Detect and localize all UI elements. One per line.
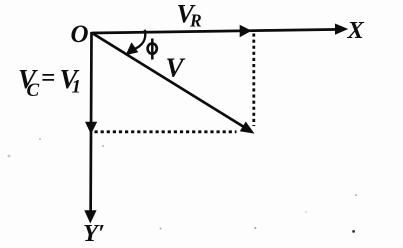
svg-text:O: O bbox=[71, 21, 89, 48]
axis Y' (vertical line from O downward) bbox=[89, 32, 93, 216]
svg-text:Y′: Y′ bbox=[83, 220, 105, 247]
svg-text:V: V bbox=[166, 53, 186, 83]
dotted horizontal projection line bbox=[95, 130, 237, 133]
arrowhead X axis end bbox=[335, 24, 348, 35]
svg-text:C: C bbox=[27, 80, 40, 101]
vector V (diagonal line) bbox=[92, 33, 248, 130]
arrowhead Y' axis end bbox=[84, 210, 96, 223]
axis X (horizontal line O to X) bbox=[92, 29, 342, 33]
arrowhead VR (on horizontal axis) bbox=[240, 25, 252, 38]
arrowhead VC (on vertical axis) bbox=[85, 122, 97, 135]
scan noise specks bbox=[8, 138, 357, 233]
svg-text:X: X bbox=[347, 17, 365, 44]
arrowhead vector V bbox=[240, 122, 255, 134]
dotted vertical projection line bbox=[252, 34, 255, 127]
angle arc phi (curved arrow) bbox=[133, 30, 146, 50]
symbol phi (ellipse + vertical stroke) bbox=[148, 39, 157, 60]
svg-text:=: = bbox=[41, 65, 55, 92]
svg-text:1: 1 bbox=[72, 77, 82, 98]
arrowhead angle arc bbox=[126, 42, 139, 55]
svg-text:R: R bbox=[189, 11, 202, 31]
